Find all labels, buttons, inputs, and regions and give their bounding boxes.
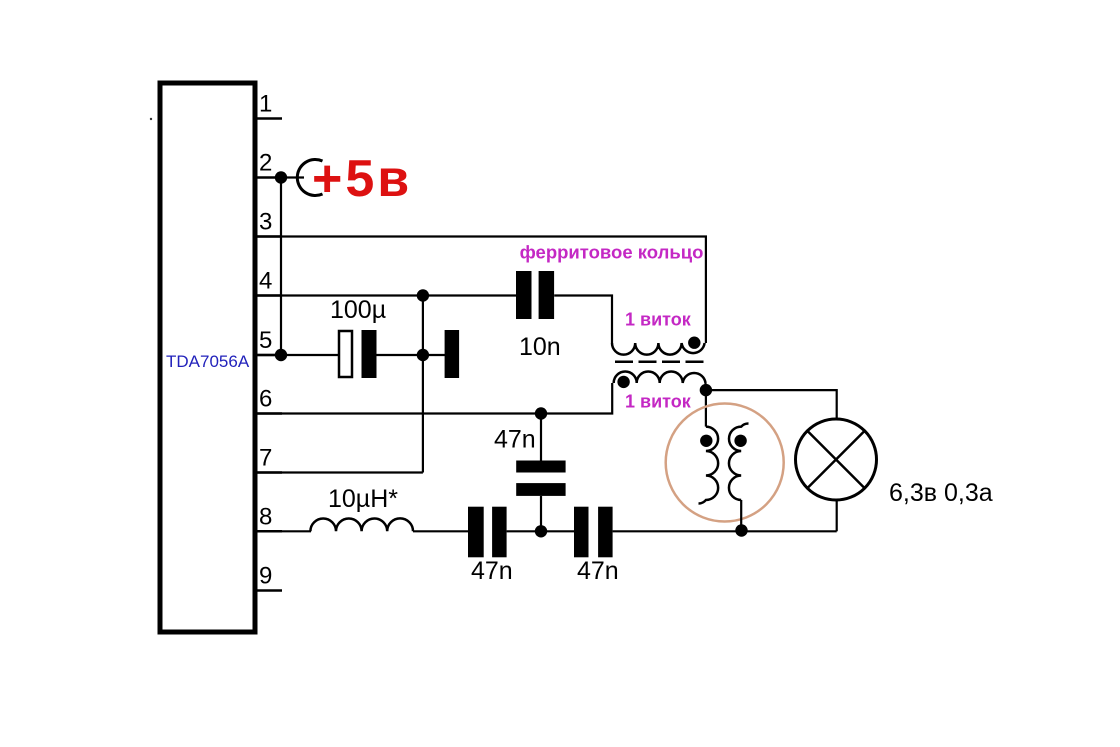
wire lamp bottom <box>836 501 838 531</box>
phasing dot T2 right <box>734 435 746 447</box>
transformer T1 secondary winding (bottom) <box>614 372 706 384</box>
pin 3 <box>255 209 282 237</box>
svg-text:10µH*: 10µH* <box>328 485 398 513</box>
capacitor C3 10n right plate <box>539 271 555 319</box>
wire pin6 junction down to C4 <box>540 414 542 461</box>
svg-text:2: 2 <box>259 150 272 177</box>
svg-text:4: 4 <box>259 268 272 295</box>
phasing dot T1 secondary <box>617 376 629 388</box>
capacitor C5 47n left plate <box>468 507 484 558</box>
wire pin2 down to pin5 <box>280 178 282 356</box>
phasing dot T2 left <box>700 435 712 447</box>
transformer T2 right winding <box>729 424 749 501</box>
junction vertical at pin5 row <box>417 349 429 361</box>
svg-text:47n: 47n <box>494 426 536 454</box>
wire bottom rail C6 to lamp <box>613 530 837 532</box>
output transformer T2 ferrite ring circle <box>666 404 784 522</box>
svg-text:TDA7056A: TDA7056A <box>166 352 250 371</box>
capacitor C1 negative plate <box>362 330 377 378</box>
transformer T1 primary winding (top) <box>612 343 705 355</box>
svg-text:1 виток: 1 виток <box>625 392 692 412</box>
svg-text:100µ: 100µ <box>330 296 386 324</box>
svg-text:+5в: +5в <box>312 150 412 208</box>
lamp HL1 circle <box>796 419 877 500</box>
wire pin3 top rail <box>255 237 706 344</box>
junction pin2 <box>275 171 287 183</box>
wire node A down to T2 <box>705 390 707 427</box>
pin 8 <box>255 503 282 531</box>
svg-text:6,3в 0,3а: 6,3в 0,3а <box>889 479 993 507</box>
capacitor C4 47n bottom plate <box>516 483 565 496</box>
svg-text:8: 8 <box>259 503 272 530</box>
pin 1 <box>255 91 282 119</box>
junction pin5 <box>275 349 287 361</box>
svg-text:47n: 47n <box>577 557 619 585</box>
wire vertical pin4-pin5-pin7 <box>422 296 424 473</box>
wire T2 right winding to bottom rail <box>740 500 742 531</box>
svg-text:7: 7 <box>259 445 272 472</box>
wire pin2 to +5v terminal <box>281 176 304 178</box>
capacitor C1 100µ electrolytic positive plate <box>339 331 352 377</box>
pin 5 <box>255 327 281 355</box>
wire T1 secondary left to pin6 <box>255 383 612 414</box>
capacitor C3 10n left plate <box>516 271 532 319</box>
wire C5 to junction <box>507 530 574 532</box>
capacitor C6 47n right plate <box>598 507 613 558</box>
svg-text:1 виток: 1 виток <box>625 309 692 329</box>
junction pin4 / vertical <box>417 289 429 301</box>
lamp HL1 cross <box>807 431 864 488</box>
phasing dot T1 primary <box>688 337 700 349</box>
junction bottom rail <box>735 524 747 536</box>
capacitor C6 47n left plate <box>574 507 589 558</box>
wire pin8 to L1 <box>255 530 311 532</box>
wire pin4 to C3 <box>255 294 516 296</box>
svg-text:3: 3 <box>259 209 272 236</box>
pin 4 <box>255 268 282 296</box>
svg-text:1: 1 <box>259 91 272 118</box>
svg-text:ферритовое кольцо: ферритовое кольцо <box>520 242 704 263</box>
svg-text:5: 5 <box>259 327 272 354</box>
pin 2 <box>255 150 281 178</box>
svg-text:47n: 47n <box>471 557 513 585</box>
svg-text:6: 6 <box>259 386 272 413</box>
svg-text:9: 9 <box>259 563 272 590</box>
wire L1 to C5 <box>413 530 468 532</box>
wire C1 to junction <box>377 354 423 356</box>
junction pin8 row <box>535 525 547 537</box>
wire C4 down to pin8 row <box>540 496 542 531</box>
wire node A to lamp top <box>706 390 837 418</box>
wire pin5 to C1 <box>255 354 340 356</box>
transformer T2 left winding <box>699 427 719 504</box>
junction pin6 row <box>535 407 547 419</box>
wire pin7 <box>255 471 423 473</box>
pin 6 <box>255 386 282 414</box>
inductor L1 10µH <box>310 518 413 531</box>
svg-text:10n: 10n <box>519 333 561 361</box>
capacitor C2 plate <box>445 330 460 378</box>
wire junction to C2 <box>423 354 445 356</box>
wire C3 to transformer T1 left <box>554 296 612 344</box>
pin 7 <box>255 445 282 473</box>
supply terminal arc +5v <box>297 160 322 196</box>
stray mark <box>150 118 152 120</box>
pin 9 <box>255 563 282 591</box>
junction node A <box>700 384 712 396</box>
wire T1 secondary right to node A <box>704 383 706 390</box>
IC U1 TDA7056A body <box>160 83 255 632</box>
transformer T1 core dashed <box>615 361 706 364</box>
capacitor C4 47n top plate <box>516 461 565 473</box>
capacitor C5 47n right plate <box>492 507 507 558</box>
